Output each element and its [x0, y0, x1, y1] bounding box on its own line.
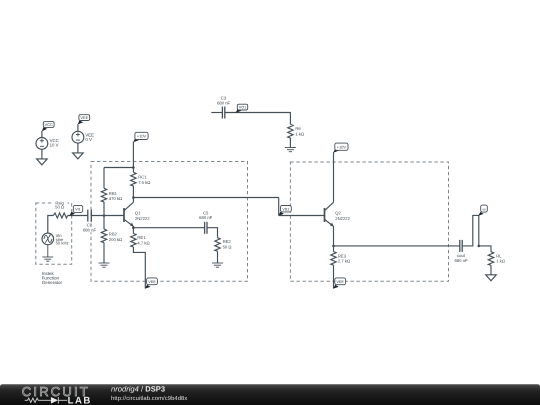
- svg-text:4.7 kΩ: 4.7 kΩ: [137, 241, 149, 246]
- node collector junction: [132, 196, 135, 199]
- node emitter junction: [132, 226, 135, 229]
- function generator enclosure (dashed): [36, 203, 72, 264]
- svg-text:2N2222: 2N2222: [335, 216, 350, 221]
- resistor RB2 200kΩ: [101, 229, 122, 243]
- resistor RE2 50Ω: [215, 238, 232, 252]
- wire RE3 to VEE flag: [333, 265, 335, 288]
- wire VEE flag to source: [77, 124, 79, 131]
- resistor RB1 470kΩ: [101, 188, 122, 202]
- svg-text:680 nF: 680 nF: [83, 227, 96, 232]
- capacitor CB 680nF: [83, 210, 97, 233]
- capacitor C3 680nF: [217, 96, 230, 119]
- svg-text:50 Ω: 50 Ω: [55, 204, 64, 209]
- svg-text:nrodrig4 / DSP3: nrodrig4 / DSP3: [111, 385, 165, 394]
- wire cout up-over to output node: [462, 215, 479, 246]
- wire base node to RB2: [103, 216, 105, 230]
- wire collector node down to VB2: [278, 198, 280, 216]
- wire rail to RC1: [132, 168, 134, 173]
- caption Instek Function Generator: [42, 271, 63, 285]
- svg-text:VI1: VI1: [75, 208, 81, 212]
- footer bar: [0, 384, 540, 405]
- svg-text:RE3: RE3: [338, 253, 347, 258]
- svg-text:0 V: 0 V: [85, 137, 92, 142]
- svg-text:Generator: Generator: [42, 280, 63, 285]
- ground (earth) below RE2: [212, 263, 223, 267]
- net flag VEE (stage 1): [145, 278, 158, 289]
- svg-text:R6: R6: [295, 126, 301, 131]
- wire RE1 to VEE flag: [133, 247, 145, 288]
- wire C3 to R6: [225, 113, 291, 125]
- wire output node to RL: [479, 246, 491, 252]
- wire +10V to Q2 collector: [333, 152, 335, 202]
- svg-text:470 kΩ: 470 kΩ: [109, 196, 122, 201]
- net flag VEE (stage 2): [333, 278, 345, 289]
- wire Q2 emitter to cout: [334, 245, 460, 247]
- net flag VEE: [78, 115, 90, 125]
- svg-text:RL: RL: [496, 253, 502, 258]
- svg-text:680 nF: 680 nF: [454, 258, 467, 263]
- CircuitLab logo: [22, 384, 92, 405]
- wire +10V to rail: [132, 142, 134, 168]
- net flag +10V (stage 2): [333, 143, 348, 153]
- svg-text:VB2: VB2: [282, 207, 289, 211]
- node base junction: [103, 214, 106, 217]
- wire RL to ground: [490, 265, 492, 275]
- resistor RL 1kΩ: [488, 252, 505, 266]
- wire R6 to ground: [289, 138, 291, 148]
- wire Rsig to flag/cap: [68, 215, 88, 217]
- svg-text:RE2: RE2: [223, 239, 232, 244]
- wire emitter to RE1: [132, 228, 134, 234]
- voltage source Vin sine: [42, 233, 69, 246]
- wire VB2 to Q2 base: [279, 215, 325, 217]
- wire RB2 to ground: [103, 243, 105, 263]
- svg-text:RB2: RB2: [109, 232, 118, 237]
- voltage source VCC 10V: [36, 138, 59, 150]
- net flag VI1: [69, 205, 82, 216]
- node Q2 emitter junction: [332, 245, 335, 248]
- svg-text:VCC: VCC: [45, 122, 53, 127]
- resistor RE1 4.7kΩ: [131, 233, 150, 247]
- wire emitter to C5: [133, 227, 204, 229]
- svg-text:680 nF: 680 nF: [217, 100, 230, 105]
- stage 2 enclosure (dashed): [290, 162, 448, 281]
- net flag +10V (stage 1): [133, 132, 148, 142]
- credit text: [111, 385, 187, 402]
- svg-text:LAB: LAB: [68, 396, 92, 405]
- wire rail to RB1: [103, 168, 105, 189]
- svg-text:RE1: RE1: [137, 235, 146, 240]
- node output junction: [478, 245, 481, 248]
- wire collector to stage 2: [133, 197, 278, 199]
- wire RE2 to ground: [217, 251, 219, 263]
- voltage source VEE 0V: [72, 131, 94, 143]
- svg-text:VEE: VEE: [148, 280, 156, 284]
- resistor RC1 7.5kΩ: [131, 172, 151, 186]
- ground (triangle) below VCC: [37, 159, 48, 165]
- svg-text:1 kΩ: 1 kΩ: [496, 259, 505, 264]
- wire VCC source to ground: [41, 149, 43, 159]
- ground (earth) below Vin: [42, 245, 53, 262]
- svg-text:680 nF: 680 nF: [199, 215, 212, 220]
- svg-text:+10V: +10V: [337, 144, 347, 149]
- svg-text:http://circuitlab.com/c9b4d8x: http://circuitlab.com/c9b4d8x: [111, 395, 187, 402]
- svg-text:VO1: VO1: [239, 106, 246, 110]
- svg-text:10 V: 10 V: [50, 142, 59, 147]
- svg-text:VEE: VEE: [80, 115, 88, 120]
- wire VEE source to ground: [77, 143, 79, 153]
- resistor RE3 2.7kΩ: [331, 252, 350, 266]
- net flag vo: [478, 205, 487, 216]
- svg-text:50 kHz: 50 kHz: [56, 241, 69, 246]
- wire VCC flag to source: [41, 131, 43, 138]
- svg-text:2N2222: 2N2222: [135, 216, 150, 221]
- wire Vin to Rsig: [48, 216, 54, 234]
- ground (earth) below R6: [285, 148, 296, 152]
- svg-text:RC1: RC1: [138, 175, 147, 180]
- ground (triangle) below VEE: [73, 153, 84, 159]
- wire RC1 to collector node: [132, 186, 134, 202]
- wire CB to base node: [91, 215, 124, 217]
- transistor Q1 2N2222: [124, 202, 150, 227]
- wire Q2 emitter to RE3: [333, 246, 335, 252]
- svg-text:VEE: VEE: [337, 280, 345, 284]
- net flag VO1: [236, 104, 248, 113]
- stage 1 enclosure (dashed): [91, 162, 248, 282]
- svg-text:7.5 kΩ: 7.5 kΩ: [138, 180, 150, 185]
- net flag VCC: [42, 122, 54, 132]
- transistor Q2 2N2222: [325, 202, 351, 246]
- ground (earth) below RB2: [99, 263, 110, 267]
- svg-text:2.7 kΩ: 2.7 kΩ: [338, 259, 350, 264]
- resistor R6 1kΩ: [288, 124, 304, 138]
- wire C5 to RE2: [207, 228, 218, 238]
- capacitor cout 680nF: [454, 240, 467, 263]
- ground (triangle) below RL: [486, 275, 497, 281]
- svg-text:200 kΩ: 200 kΩ: [109, 237, 122, 242]
- capacitor C5 680nF: [199, 211, 212, 234]
- svg-text:+10V: +10V: [137, 134, 147, 139]
- wire supply rail: [104, 167, 133, 169]
- wire stub to C3: [211, 112, 222, 114]
- wire RB1 to base node: [103, 202, 105, 216]
- resistor Rsig 50Ω: [52, 200, 68, 218]
- net flag VB2: [278, 206, 291, 216]
- svg-text:vo: vo: [482, 207, 486, 211]
- node rail junction: [132, 166, 135, 169]
- svg-text:RB1: RB1: [109, 191, 118, 196]
- svg-text:50 Ω: 50 Ω: [223, 245, 232, 250]
- svg-text:1 kΩ: 1 kΩ: [295, 131, 304, 136]
